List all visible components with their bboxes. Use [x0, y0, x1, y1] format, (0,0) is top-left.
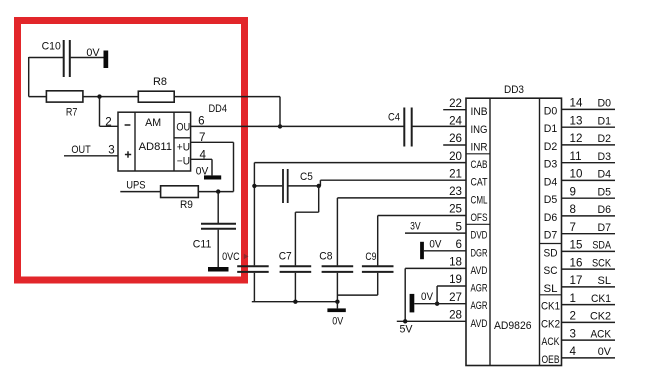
svg-text:C4: C4 [388, 112, 400, 124]
svg-text:9: 9 [570, 185, 576, 198]
svg-text:OFS: OFS [471, 212, 488, 224]
svg-text:0V: 0V [598, 346, 612, 358]
svg-text:28: 28 [449, 309, 462, 322]
svg-text:D1: D1 [598, 115, 612, 127]
svg-text:0V: 0V [196, 165, 209, 177]
svg-text:C7: C7 [279, 250, 292, 262]
svg-text:C5: C5 [300, 171, 313, 183]
svg-text:D6: D6 [598, 204, 612, 216]
svg-text:CK2: CK2 [590, 311, 611, 323]
svg-text:7: 7 [570, 221, 576, 234]
svg-text:0V: 0V [86, 47, 100, 59]
svg-text:17: 17 [570, 274, 583, 287]
svg-text:6: 6 [198, 115, 204, 128]
svg-text:12: 12 [570, 132, 583, 145]
svg-text:2: 2 [105, 115, 111, 128]
svg-text:0VC: 0VC [222, 251, 240, 263]
svg-text:15: 15 [570, 239, 583, 252]
svg-text:14: 14 [570, 97, 583, 110]
svg-text:CK1: CK1 [541, 301, 560, 313]
svg-text:SC: SC [544, 265, 558, 277]
svg-text:D4: D4 [544, 176, 558, 188]
svg-text:C11: C11 [193, 238, 212, 250]
svg-text:SCK: SCK [592, 257, 611, 269]
svg-text:DD4: DD4 [209, 103, 228, 115]
svg-text:27: 27 [449, 291, 462, 304]
svg-text:D5: D5 [544, 194, 558, 206]
svg-text:ACK: ACK [542, 336, 560, 348]
svg-text:D0: D0 [544, 105, 558, 117]
svg-text:CAT: CAT [471, 177, 488, 189]
svg-text:ACK: ACK [591, 328, 612, 340]
svg-text:1: 1 [570, 292, 576, 305]
svg-text:20: 20 [449, 150, 462, 163]
svg-text:D6: D6 [544, 212, 558, 224]
svg-text:DGR: DGR [471, 247, 488, 259]
svg-text:13: 13 [570, 114, 583, 127]
svg-text:0V: 0V [429, 239, 441, 251]
svg-text:CK2: CK2 [541, 318, 560, 330]
svg-text:16: 16 [570, 256, 583, 269]
svg-text:D7: D7 [598, 222, 612, 234]
svg-text:26: 26 [449, 132, 462, 145]
svg-text:D0: D0 [598, 98, 612, 110]
svg-text:UPS: UPS [126, 179, 146, 191]
svg-text:24: 24 [449, 115, 462, 128]
svg-text:+U: +U [177, 142, 190, 154]
svg-text:C10: C10 [42, 41, 61, 53]
svg-text:5: 5 [456, 220, 462, 233]
svg-text:AM: AM [145, 117, 161, 129]
svg-text:C9: C9 [365, 251, 376, 263]
svg-text:OU: OU [176, 122, 190, 134]
svg-text:R7: R7 [66, 107, 78, 119]
svg-text:CML: CML [471, 194, 488, 206]
svg-text:25: 25 [449, 203, 462, 216]
svg-text:0V: 0V [421, 291, 433, 303]
svg-text:18: 18 [449, 256, 462, 269]
svg-text:6: 6 [456, 238, 462, 251]
svg-text:AD811: AD811 [139, 141, 173, 153]
svg-text:2: 2 [570, 310, 576, 323]
svg-text:3: 3 [108, 143, 114, 156]
svg-text:D2: D2 [544, 141, 558, 153]
svg-text:CAB: CAB [471, 159, 488, 171]
svg-text:3V: 3V [410, 221, 421, 233]
svg-text:AGR: AGR [471, 283, 488, 295]
svg-text:19: 19 [449, 273, 462, 286]
svg-text:5V: 5V [400, 324, 413, 336]
svg-text:D3: D3 [598, 151, 612, 163]
svg-text:11: 11 [570, 150, 582, 163]
svg-text:AVD: AVD [471, 318, 488, 330]
svg-text:INR: INR [471, 142, 488, 154]
svg-text:OEB: OEB [542, 354, 560, 366]
svg-text:AD9826: AD9826 [494, 320, 532, 332]
svg-text:10: 10 [570, 168, 583, 181]
svg-text:R9: R9 [180, 199, 193, 211]
svg-text:D1: D1 [544, 123, 558, 135]
svg-text:22: 22 [449, 97, 462, 110]
svg-text:0V: 0V [332, 315, 343, 327]
svg-text:D4: D4 [598, 169, 612, 181]
svg-text:−U: −U [177, 155, 190, 167]
svg-text:AGR: AGR [471, 300, 488, 312]
svg-text:DVD: DVD [471, 230, 488, 242]
svg-text:8: 8 [570, 203, 576, 216]
svg-text:D5: D5 [598, 186, 612, 198]
svg-text:C8: C8 [319, 250, 332, 262]
svg-text:INB: INB [471, 106, 488, 118]
svg-text:ING: ING [471, 124, 488, 136]
svg-text:21: 21 [449, 167, 462, 180]
svg-text:D2: D2 [598, 133, 612, 145]
svg-text:D7: D7 [544, 230, 558, 242]
svg-text:D3: D3 [544, 159, 558, 171]
svg-text:3: 3 [570, 327, 576, 340]
svg-text:OUT: OUT [71, 144, 90, 156]
svg-text:SD: SD [544, 247, 558, 259]
svg-text:DD3: DD3 [504, 84, 524, 96]
svg-text:4: 4 [570, 345, 577, 358]
svg-text:CK1: CK1 [591, 293, 611, 305]
svg-text:AVD: AVD [471, 265, 488, 277]
svg-text:R8: R8 [153, 76, 167, 88]
svg-text:SL: SL [544, 283, 558, 295]
svg-text:SDA: SDA [592, 240, 611, 252]
svg-text:23: 23 [449, 185, 462, 198]
svg-text:SL: SL [598, 275, 612, 287]
